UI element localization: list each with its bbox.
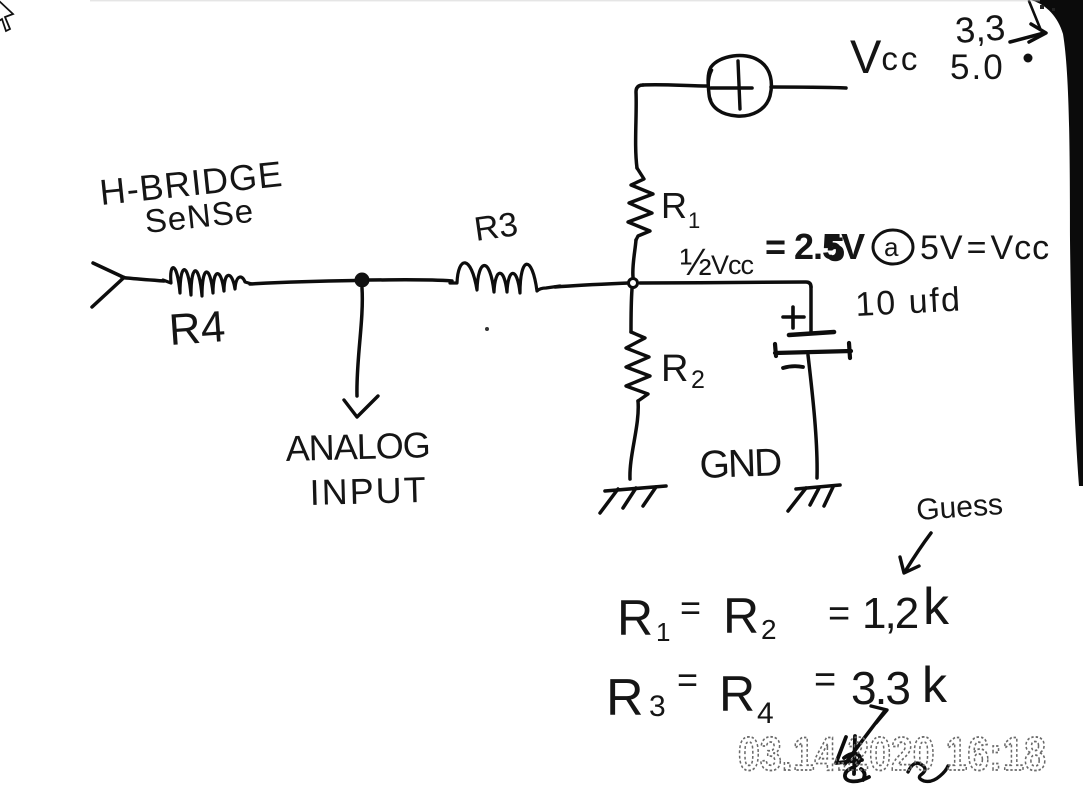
faint top edge line: [90, 0, 1040, 1]
node A junction dot: [355, 273, 370, 288]
svg-text:=: =: [677, 659, 698, 700]
input lead chevron: [92, 263, 124, 307]
svg-text:10 ufd: 10 ufd: [854, 280, 962, 324]
wire: node B to capacitor corner: [640, 282, 811, 287]
small ink dot mid page: [485, 327, 489, 331]
svg-text:a: a: [884, 232, 899, 262]
svg-text:R: R: [661, 185, 687, 226]
pen scribble over timestamp (left): [836, 736, 869, 781]
wire: vertical into capacitor +: [809, 287, 813, 332]
wire: R3 to node B: [555, 283, 628, 287]
node B junction (open dot): [629, 279, 638, 288]
capacitor C1 minus sign: [783, 366, 803, 368]
svg-text:R: R: [723, 588, 759, 644]
ink dot near 5.0: [1024, 54, 1033, 63]
equation: R3 = R4 = 3.3k: [606, 657, 948, 730]
wire: R2 to ground: [630, 401, 638, 479]
svg-text:=: =: [814, 659, 836, 701]
svg-text:3.3: 3.3: [851, 662, 909, 714]
capacitor C1 bottom plate: [775, 343, 851, 358]
svg-text:=: =: [680, 587, 701, 628]
svg-text:R: R: [661, 348, 688, 390]
svg-text:=: =: [828, 593, 850, 635]
svg-text:R4: R4: [167, 302, 227, 355]
svg-text:= 2.5V: = 2.5V: [765, 226, 865, 267]
svg-text:½: ½: [680, 242, 712, 284]
svg-text:R: R: [719, 666, 755, 722]
svg-text:5.0: 5.0: [950, 48, 1005, 87]
wire: node B up to R1: [633, 240, 636, 277]
label: circled-a (at): [873, 230, 913, 264]
svg-text:2: 2: [691, 366, 705, 394]
svg-text:R3: R3: [472, 205, 520, 249]
label: R2: [661, 348, 705, 394]
ground symbol (capacitor): [788, 485, 840, 511]
svg-text:INPUT: INPUT: [309, 469, 428, 513]
arrow: pointing up-right to 3.3k: [845, 706, 887, 764]
resistor R4: [163, 268, 252, 296]
wire: supply circle to Vcc label: [771, 87, 846, 88]
resistor R1: [628, 168, 653, 240]
label: 1/2 Vcc: [680, 242, 754, 284]
pen scribble over timestamp (right): [908, 763, 948, 781]
capacitor C1 10ufd plus sign: [783, 307, 804, 328]
label: ANALOG INPUT: [285, 424, 430, 513]
wire: R4 to node A: [250, 281, 356, 285]
svg-text:5: 5: [826, 231, 845, 269]
wire: input to R4: [122, 278, 164, 282]
wire: corner to supply circle: [643, 85, 708, 86]
svg-text:4: 4: [757, 697, 774, 730]
svg-text:1,2: 1,2: [862, 589, 918, 638]
svg-text:GND: GND: [699, 441, 782, 487]
equation: R1 = R2 = 1.2k: [617, 578, 950, 647]
wire: R1 up to Vcc rail corner: [636, 85, 643, 168]
svg-text:ANALOG: ANALOG: [285, 424, 430, 469]
svg-text:2: 2: [761, 614, 777, 645]
arrowhead: analog input: [344, 396, 378, 417]
ground symbol (R2): [600, 486, 666, 513]
mouse cursor artifact top-left: [0, 0, 13, 31]
wire: node A to R3: [369, 280, 452, 281]
resistor R2: [626, 332, 650, 401]
svg-text:Vcc: Vcc: [711, 250, 754, 280]
svg-text:Guess: Guess: [915, 488, 1004, 527]
arrow: beside 3,3: [1010, 1, 1046, 42]
label: = 2.5V: [765, 226, 865, 269]
svg-text:3: 3: [649, 690, 666, 723]
power supply source symbol (circle with plus): [708, 56, 771, 117]
resistor R3: [450, 263, 560, 293]
label: R1: [661, 185, 700, 233]
photo edge shadow right: [1031, 0, 1083, 486]
svg-text:k: k: [922, 657, 948, 713]
svg-text:3,3: 3,3: [954, 7, 1007, 51]
wire: node A down to analog input arrow: [357, 288, 362, 396]
svg-text:R: R: [606, 669, 644, 727]
label: H-BRIDGE SENSE: [98, 153, 285, 240]
svg-text:1: 1: [688, 208, 700, 233]
svg-text:R: R: [617, 590, 653, 646]
wire: capacitor to ground: [808, 355, 817, 478]
svg-text:03.14.2020 16:18: 03.14.2020 16:18: [738, 727, 1046, 780]
svg-text:k: k: [923, 578, 950, 636]
arrow: guess pointing down-left: [900, 533, 931, 573]
wire: node B down to R2: [631, 289, 632, 332]
svg-text:5V=Vcc: 5V=Vcc: [920, 229, 1050, 267]
capacitor C1 top plate: [789, 332, 834, 335]
svg-text:1: 1: [656, 617, 670, 647]
